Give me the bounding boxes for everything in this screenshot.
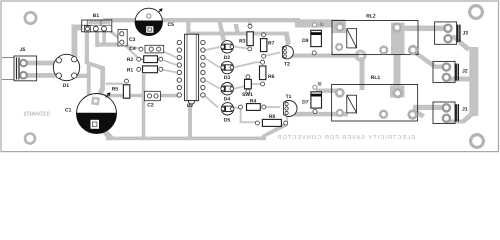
wire D7 to RL1 pad [316, 89, 340, 93]
wire thin diag B1 to C4 [110, 31, 143, 49]
svg-text:D7: D7 [302, 100, 309, 106]
svg-text:C4: C4 [129, 46, 136, 52]
resistor R5 [112, 79, 130, 98]
bridge rectifier D1 [53, 54, 79, 89]
wire T1 to RL1 [294, 112, 348, 117]
wire B1 right trace down [95, 32, 119, 47]
svg-text:R7: R7 [268, 40, 275, 46]
wire R3 stub [248, 21, 252, 28]
node ring pad mid [356, 51, 365, 60]
wire RL1 right exit [412, 109, 425, 119]
svg-text:R5: R5 [112, 87, 119, 93]
svg-text:J5: J5 [20, 47, 26, 53]
transistor T2 [282, 46, 293, 68]
svg-text:U2: U2 [187, 103, 194, 109]
svg-text:J2: J2 [462, 69, 468, 75]
via square near C1 [91, 96, 100, 105]
wire thin R6 to SW1 [248, 83, 263, 85]
relay RL2 [332, 14, 418, 55]
via square near D7 [313, 82, 322, 89]
wire thin R2 to U2 [160, 58, 176, 65]
wire thin D3 to R6 [234, 61, 263, 68]
wire thin T1 to R8 [286, 115, 288, 122]
svg-text:J3: J3 [463, 31, 469, 37]
svg-text:D5: D5 [224, 117, 231, 123]
wire D1 right lower [74, 74, 88, 78]
wire thin R4 to T1 [264, 106, 280, 108]
connector J1 [433, 102, 468, 124]
svg-text:T2: T2 [284, 61, 290, 67]
mounting hole bottom-left [25, 134, 35, 144]
resistor R6 [260, 60, 275, 86]
wire thin C4 to U2 [158, 48, 176, 58]
diode D7 [302, 92, 321, 114]
wire band to J2 [444, 77, 472, 82]
svg-text:RL2: RL2 [366, 14, 376, 20]
svg-text:RL1: RL1 [371, 75, 381, 81]
svg-text:B1: B1 [93, 13, 100, 19]
wire thin band to R5 [106, 83, 124, 85]
svg-text:ELECTRICITY SAVER FOR CONVECTO: ELECTRICITY SAVER FOR CONVECTOR [277, 135, 415, 141]
wire band bottom to J1 [449, 113, 475, 124]
wire thin D4 to SW1 [234, 85, 248, 90]
wire right vertical band [469, 47, 478, 116]
wire J5 to D1 upper [24, 61, 56, 66]
wire thin D2 to R3 [233, 46, 248, 50]
wire stub to D2 [218, 22, 227, 41]
diode D5 [221, 103, 234, 124]
transistor T1 [284, 94, 297, 117]
wire thin diag C3 to R2 [121, 42, 139, 59]
resistor R3 [239, 24, 253, 51]
resistor R2 [127, 56, 163, 63]
diode D9 [302, 30, 321, 55]
diode D3 [221, 61, 234, 81]
wire stub mid [234, 24, 241, 34]
wire thin U2 to D4 [204, 79, 220, 89]
resistor R1 [127, 66, 163, 73]
svg-text:D4: D4 [224, 97, 231, 103]
wire second rail [186, 20, 291, 46]
wire T2 to ring pad [291, 54, 359, 58]
svg-text:D3: D3 [224, 75, 231, 81]
resistor R4 [239, 98, 266, 110]
relay RL1 [332, 75, 418, 121]
via square near D9 [313, 23, 324, 27]
capacitor C3 [118, 29, 136, 46]
wire J5 to D1 lower [24, 73, 56, 78]
svg-text:C3: C3 [129, 37, 136, 43]
wire D1 right upper [72, 50, 78, 59]
wire thin SW1 to R8 [240, 108, 242, 123]
capacitor C1 [65, 92, 117, 133]
diode D4 [221, 83, 234, 103]
wire RL1 to J1 [413, 105, 448, 110]
svg-text:SCEDWAVE 01: SCEDWAVE 01 [23, 112, 51, 118]
wire bottom rail [100, 122, 289, 140]
wire ring pad down to RL1 [360, 57, 365, 90]
wire top rail [103, 18, 345, 28]
wire thin U2 to D2 [205, 46, 220, 51]
svg-text:R6: R6 [268, 74, 275, 80]
svg-text:R8: R8 [269, 114, 276, 120]
wire thin U2 to D5 [203, 94, 218, 108]
mounting hole top-left [25, 12, 36, 23]
IC U2 [177, 34, 205, 109]
connector J2 [433, 61, 468, 82]
wire through trace under U2 [188, 33, 192, 138]
mounting hole top-right [470, 6, 483, 19]
connector J3 [435, 22, 469, 44]
svg-text:C5: C5 [168, 22, 175, 28]
svg-text:T1: T1 [286, 94, 292, 100]
wire B1 mid trace down [85, 32, 106, 100]
svg-text:SW1: SW1 [242, 92, 253, 98]
svg-text:D9: D9 [302, 38, 309, 44]
svg-text:D1: D1 [63, 83, 70, 89]
wire B1 left wide trace to D1 [72, 25, 85, 58]
svg-text:C1: C1 [65, 108, 72, 114]
capacitor C5 [135, 8, 174, 35]
board border frame [1, 1, 499, 152]
svg-text:J1: J1 [462, 107, 468, 113]
wire C2 vertical [142, 74, 146, 137]
connector J5 [2, 47, 37, 81]
svg-text:R1: R1 [127, 67, 134, 73]
wire thin R7 to T2 [263, 52, 280, 58]
capacitor C2 [144, 91, 160, 108]
diode D2 [221, 41, 234, 61]
wire thin U2 to D3 [204, 57, 220, 68]
wire thin D5 to R4 [234, 107, 242, 109]
wire between relays vertical [391, 23, 405, 55]
wire RL2 to J2 [412, 50, 449, 69]
svg-text:C2: C2 [147, 103, 154, 109]
switch SW1 [242, 75, 253, 98]
terminal block B1 [82, 13, 112, 32]
wire RL2 to J3 [400, 26, 446, 32]
svg-text:R3: R3 [239, 39, 246, 45]
resistor R8 [255, 114, 287, 126]
resistor R7 [261, 33, 275, 58]
wire J3 to right band [450, 35, 471, 52]
svg-text:R4: R4 [250, 98, 257, 104]
mounting hole bottom-right [471, 135, 484, 148]
wire mid horizontal to U2 [103, 94, 177, 98]
capacitor C4 [129, 45, 163, 53]
wire RL2 left blob [332, 21, 346, 33]
svg-text:R2: R2 [127, 57, 134, 63]
svg-text:D2: D2 [224, 55, 231, 61]
wire thin R1 to U2 [160, 69, 176, 74]
